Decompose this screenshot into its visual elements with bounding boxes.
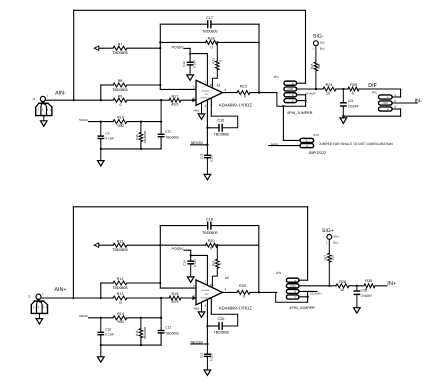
svg-text:R17: R17 — [172, 94, 179, 98]
svg-text:4PIN_JUMPER: 4PIN_JUMPER — [287, 111, 313, 115]
svg-text:TBD0805: TBD0805 — [112, 248, 128, 252]
jumper JP3 pin 1 — [379, 89, 401, 99]
ground below C22 — [354, 308, 361, 313]
node junction C21 — [342, 88, 344, 90]
jumper JP1 pin A — [284, 81, 306, 85]
svg-text:C11: C11 — [165, 130, 171, 134]
net label SIG+ — [322, 228, 334, 234]
capacitor C13 — [182, 60, 196, 75]
connector J2 (SMB jack) — [28, 292, 48, 324]
svg-text:990: 990 — [117, 124, 123, 128]
svg-text:C9: C9 — [105, 131, 109, 135]
svg-text:R13: R13 — [117, 292, 124, 296]
wire A2 output — [223, 92, 277, 94]
wire inverting-node vertical — [160, 24, 196, 89]
net label POS5V bottom — [172, 247, 185, 251]
svg-text:SIG-: SIG- — [320, 42, 326, 45]
net label NEG5V top — [191, 141, 204, 145]
resistor R23 — [237, 84, 250, 98]
capacitor C18 — [202, 217, 218, 235]
node junction C22 — [356, 285, 358, 287]
label ADA4899 A3 — [219, 305, 252, 310]
wire SGND row bottom — [89, 317, 162, 319]
svg-text:100: 100 — [317, 63, 321, 68]
svg-text:SIG+: SIG+ — [333, 235, 340, 238]
svg-text:49.9: 49.9 — [171, 102, 178, 106]
jumper JP2 pin A — [286, 278, 307, 282]
op-amp A3 triangle — [196, 280, 223, 305]
resistor R8 — [112, 79, 128, 92]
svg-text:R20: R20 — [208, 239, 215, 243]
wire JP1-C to P13 pin1 — [283, 139, 300, 141]
node junctions on inverting vertical — [159, 41, 161, 86]
svg-text:0: 0 — [119, 301, 121, 305]
jumper JP1 pin C — [284, 99, 306, 103]
wire SIGAMP- line — [316, 88, 401, 90]
node junction SIG+ — [328, 285, 330, 287]
node junction feedback tap bottom — [258, 291, 260, 293]
svg-text:10: 10 — [340, 288, 344, 292]
wire R7 row — [99, 47, 161, 49]
svg-text:C17: C17 — [206, 16, 213, 20]
capacitor C22 — [354, 286, 372, 308]
resistor R20 — [206, 239, 218, 251]
label PAD A3 — [194, 306, 200, 310]
svg-text:R12: R12 — [117, 277, 124, 281]
ground below C21 — [340, 116, 347, 123]
node junction POS5V bottom — [190, 254, 192, 256]
svg-text:DISABLE: DISABLE — [202, 289, 211, 292]
svg-text:C10: C10 — [105, 328, 111, 332]
svg-text:R11: R11 — [117, 239, 124, 243]
node junctions SGND row bottom — [100, 317, 163, 319]
wire AIN+ main — [42, 297, 196, 299]
wire A3 output — [223, 291, 277, 293]
capacitor C12 — [158, 298, 179, 345]
wire output elbow to JP2 pins B-C — [276, 291, 309, 302]
node junction feedback tap — [258, 91, 260, 93]
svg-text:C13: C13 — [182, 61, 186, 67]
capacitor C20 feedback loop — [206, 314, 237, 334]
jumper P13 pin 1 — [300, 138, 314, 142]
svg-text:BLU: BLU — [320, 48, 325, 51]
node junction R21 top — [216, 41, 218, 43]
node junctions ground rail — [100, 148, 142, 150]
svg-text:SIGAMP+: SIGAMP+ — [310, 293, 322, 296]
svg-text:0.1UF: 0.1UF — [105, 137, 114, 141]
svg-text:J1: J1 — [32, 97, 35, 101]
resistor R26 — [237, 284, 250, 298]
node junction SIG- — [315, 88, 317, 90]
svg-text:AIN+: AIN+ — [54, 287, 66, 293]
jumper JP3 pin 2 — [379, 99, 418, 105]
svg-text:0.1UF: 0.1UF — [210, 154, 214, 162]
svg-text:C12: C12 — [165, 326, 171, 330]
svg-text:TBD0805: TBD0805 — [112, 286, 128, 290]
resistor R14 — [113, 312, 127, 324]
node junction NEG5V — [206, 144, 208, 146]
svg-text:C16: C16 — [199, 352, 203, 358]
resistor R22 — [211, 245, 222, 287]
label JP1 — [274, 75, 280, 79]
label A3 — [225, 276, 229, 280]
testpoint SIG+ circle — [326, 235, 340, 245]
resistor R15 — [135, 122, 147, 149]
svg-text:TBD0805: TBD0805 — [165, 135, 179, 139]
capacitor C15 — [199, 145, 213, 175]
svg-text:R25: R25 — [310, 63, 314, 69]
jumper JP3 pin 3 — [379, 105, 401, 116]
svg-text:TBD0805: TBD0805 — [202, 231, 218, 235]
ground PAD A3 — [198, 302, 205, 317]
svg-text:R24: R24 — [326, 83, 333, 87]
pin number 8 A3 — [210, 283, 212, 287]
net label SGND bottom — [79, 314, 89, 318]
label PAD — [194, 108, 200, 112]
node junctions ground rail bottom — [100, 344, 142, 346]
pin number 2 A3 — [193, 284, 195, 288]
svg-text:FEEDBACK: FEEDBACK — [200, 296, 211, 299]
svg-text:JUMPER FOR SINGLE TO DIFF CONF: JUMPER FOR SINGLE TO DIFF CONFIGURATION — [319, 142, 394, 146]
svg-text:BLU: BLU — [333, 241, 338, 244]
svg-text:C20: C20 — [218, 317, 225, 321]
svg-text:0.1UF: 0.1UF — [193, 259, 197, 267]
wire feedback tap vertical bottom — [258, 226, 260, 293]
svg-text:V-: V- — [202, 100, 204, 103]
svg-text:SIG+: SIG+ — [322, 228, 334, 234]
pin number 2 — [193, 86, 195, 90]
pin number 1 A3 — [211, 299, 213, 303]
svg-text:AIN-: AIN- — [55, 91, 66, 97]
svg-text:R9: R9 — [118, 94, 123, 98]
node junction R22 top — [216, 244, 218, 246]
resistor R21 — [211, 42, 222, 88]
pin 3 input arrow A3 — [192, 296, 196, 300]
svg-text:C14: C14 — [183, 260, 187, 266]
label 4PIN_JUMPER bottom — [289, 306, 315, 310]
jumper JP2 pin C — [286, 295, 307, 299]
svg-text:100: 100 — [331, 255, 335, 260]
resistor R24 — [323, 83, 336, 95]
net arrow R7 row — [94, 46, 99, 50]
net label POS5V top — [172, 46, 185, 50]
pin number 6 A3 — [225, 288, 227, 292]
svg-text:DISABLE: DISABLE — [202, 89, 211, 92]
net label NEG5V bottom — [191, 340, 204, 344]
net arrow R11 row — [94, 243, 99, 247]
net label SIGAMP+ — [310, 293, 322, 296]
wire R18 feedback row — [160, 41, 259, 43]
resistor R27 — [323, 239, 334, 285]
pin number 8 — [210, 83, 212, 87]
svg-text:CON: CON — [288, 88, 294, 91]
svg-text:0: 0 — [243, 294, 245, 298]
wire pin4 negative supply — [206, 100, 208, 144]
node junction C21 ground — [342, 115, 344, 117]
resistor R29 — [348, 83, 359, 95]
svg-text:R8: R8 — [118, 79, 123, 83]
wire ground rail bottom — [101, 344, 161, 346]
node junctions on AIN+ wire — [100, 297, 163, 299]
svg-text:SGND: SGND — [79, 314, 89, 318]
wire JP1 pin C to P13 vertical — [282, 105, 284, 140]
wire C17 feedback row — [160, 23, 259, 25]
svg-text:C21: C21 — [348, 99, 354, 103]
wire POS5V stub — [184, 48, 207, 85]
svg-text:0.1UF: 0.1UF — [192, 60, 196, 68]
resistor R19 — [169, 292, 181, 304]
ground below C14 — [187, 277, 194, 282]
resistor R9 — [113, 94, 127, 107]
node junctions on AIN- wire — [100, 99, 163, 101]
svg-text:C19: C19 — [218, 119, 225, 123]
note single-to-diff — [319, 142, 394, 146]
svg-text:0.1UF: 0.1UF — [210, 353, 214, 361]
resistor R11 — [112, 239, 128, 252]
resistor R18 — [206, 37, 218, 50]
svg-text:ADA4899-1YRDZ: ADA4899-1YRDZ — [219, 305, 252, 310]
svg-text:0: 0 — [352, 91, 354, 95]
wire R11-R20 row — [99, 244, 259, 246]
svg-text:R14: R14 — [117, 312, 124, 316]
svg-text:R29: R29 — [350, 83, 357, 87]
svg-text:POS5V: POS5V — [172, 247, 185, 251]
svg-text:FEEDBACK: FEEDBACK — [200, 97, 211, 100]
svg-text:DIF: DIF — [368, 83, 377, 89]
svg-text:P13: P13 — [313, 133, 319, 137]
svg-text:R22: R22 — [211, 260, 215, 266]
svg-text:0: 0 — [244, 95, 246, 99]
label JP2 — [276, 271, 282, 275]
svg-text:R30: R30 — [365, 279, 372, 283]
net label SIG- — [313, 34, 324, 40]
svg-text:R16: R16 — [135, 330, 139, 336]
wire ground rail — [101, 148, 161, 150]
jumper JP1 pin CON — [284, 87, 316, 91]
svg-text:C: C — [294, 296, 296, 299]
capacitor C10 — [98, 318, 114, 345]
svg-text:0: 0 — [210, 45, 212, 49]
net label SIGAMP- — [305, 92, 316, 95]
wire POS5V stub bottom — [184, 250, 207, 285]
label ADA4899 A2 — [219, 103, 252, 108]
net label AIN- — [55, 91, 66, 97]
svg-text:TBD0805: TBD0805 — [165, 332, 179, 336]
capacitor C16 — [199, 344, 213, 370]
op-amp A3 internal labels — [200, 285, 211, 303]
wire C18 feedback row — [160, 225, 258, 227]
svg-text:J2: J2 — [28, 295, 31, 299]
svg-text:A3: A3 — [225, 276, 229, 280]
resistor R12 — [112, 277, 128, 290]
op-amp A2 triangle — [196, 80, 223, 105]
label P13 — [313, 133, 319, 137]
wire inverting-node vertical bottom — [160, 226, 196, 289]
svg-text:TBD0805: TBD0805 — [143, 130, 147, 143]
wire SIGAMP+ line — [330, 285, 387, 287]
pin 3 input arrow A2 — [192, 98, 196, 102]
svg-text:0: 0 — [210, 246, 212, 250]
pin number 3 A3 — [193, 294, 195, 298]
svg-text:R23: R23 — [240, 84, 247, 88]
wire pin1 feedback A3 — [210, 298, 212, 315]
ground below C9 — [98, 149, 105, 166]
svg-text:TBD0805: TBD0805 — [214, 331, 230, 335]
pin number 4 — [205, 104, 207, 108]
svg-text:R19: R19 — [172, 292, 179, 296]
ground below C15 — [204, 174, 211, 179]
ground below C13 — [187, 75, 194, 80]
resistor R17 — [169, 94, 181, 106]
wire output elbow to JP1 pins B-C — [277, 93, 307, 107]
pin number 6 — [225, 88, 227, 92]
svg-text:R15: R15 — [135, 134, 139, 140]
wire R12 row — [101, 283, 161, 298]
svg-text:R7: R7 — [118, 42, 123, 46]
svg-text:2700PF: 2700PF — [361, 294, 372, 298]
pin number 7 — [204, 80, 206, 84]
svg-text:POS5V: POS5V — [172, 46, 185, 50]
svg-text:R28: R28 — [339, 280, 346, 284]
jumper JP2 pin B — [286, 289, 317, 293]
svg-text:CON: CON — [382, 102, 388, 105]
label A2 — [217, 84, 221, 88]
svg-text:0: 0 — [119, 103, 121, 107]
node junctions on inverting vertical bottom — [159, 244, 161, 284]
wire feedback tap vertical — [258, 24, 260, 92]
capacitor C14 — [183, 259, 197, 277]
jumper JP2 pin CON — [286, 284, 329, 288]
wire pin4 negative supply A3 — [206, 300, 208, 345]
resistor R7 — [112, 42, 128, 55]
pin number 1 — [211, 102, 213, 106]
svg-text:IN+: IN+ — [387, 281, 396, 287]
pin number 4 A3 — [205, 304, 207, 308]
wire AIN- main — [46, 99, 196, 101]
op-amp A2 internal labels — [200, 86, 211, 104]
svg-text:CON: CON — [290, 285, 296, 288]
svg-text:JP3: JP3 — [372, 91, 377, 95]
wire SGND row — [89, 121, 162, 123]
node junction NEG5V bottom — [206, 343, 208, 345]
testpoint SIG- circle — [312, 41, 325, 51]
svg-text:SGND: SGND — [79, 118, 89, 122]
svg-text:C: C — [292, 100, 294, 103]
svg-text:IN-: IN- — [415, 98, 423, 104]
resistor R13 — [113, 292, 127, 305]
svg-text:C15: C15 — [199, 153, 203, 159]
node junction POS5V — [189, 52, 191, 54]
svg-text:PAD: PAD — [194, 108, 200, 112]
svg-text:R10: R10 — [117, 116, 124, 120]
svg-text:TBD0805: TBD0805 — [112, 88, 128, 92]
svg-text:0: 0 — [365, 287, 367, 291]
ground PAD A2 — [198, 103, 205, 119]
svg-text:2700PF: 2700PF — [348, 104, 359, 108]
svg-text:A2: A2 — [217, 84, 221, 88]
svg-text:49.9: 49.9 — [171, 300, 178, 304]
svg-text:JMP1SO2: JMP1SO2 — [309, 151, 326, 155]
jumper P13 pin 2 — [300, 144, 314, 148]
resistor R30 — [364, 279, 375, 291]
wire top feedback rail — [74, 10, 306, 100]
capacitor C11 — [158, 100, 179, 149]
pin number 3 — [193, 96, 195, 100]
wire R8 row — [101, 85, 161, 100]
ground below C10 — [98, 345, 105, 362]
svg-text:4PIN_JUMPER: 4PIN_JUMPER — [289, 306, 315, 310]
svg-text:R27: R27 — [323, 255, 327, 261]
net label DIF — [368, 83, 377, 89]
capacitor C17 — [202, 16, 218, 34]
resistor R28 — [336, 280, 349, 292]
svg-text:JP2: JP2 — [276, 271, 282, 275]
resistor R10 — [113, 116, 127, 128]
wire AGND to P13 pin2 — [269, 145, 300, 147]
svg-text:R18: R18 — [208, 37, 215, 41]
wire NEG5V stub — [191, 144, 208, 146]
svg-text:TBD0805: TBD0805 — [214, 132, 230, 136]
svg-text:R21: R21 — [211, 58, 215, 64]
net label IN- — [415, 98, 423, 104]
svg-text:ADA4899-1YRDZ: ADA4899-1YRDZ — [219, 103, 252, 108]
jumper JP1 pin B — [284, 93, 306, 97]
wire bottom feedback rail — [73, 207, 307, 298]
label 4PIN_JUMPER top — [287, 111, 313, 115]
svg-text:0.1UF: 0.1UF — [105, 333, 114, 337]
pin number 7 A3 — [204, 280, 206, 284]
resistor R25 — [310, 46, 321, 89]
net label SGND top — [79, 118, 89, 122]
capacitor C19 feedback loop — [206, 116, 237, 136]
connector J1 (SMB jack) — [32, 95, 52, 127]
net label IN+ — [387, 281, 396, 287]
node junctions SGND row — [100, 120, 163, 122]
svg-text:C18: C18 — [206, 217, 213, 221]
svg-text:V-: V- — [202, 300, 204, 303]
wire JP3 pin3 return — [343, 115, 400, 117]
svg-text:990: 990 — [117, 320, 123, 324]
svg-text:PAD: PAD — [194, 306, 200, 310]
label JP3 — [372, 91, 377, 95]
svg-text:TBD0805: TBD0805 — [202, 30, 218, 34]
capacitor C21 — [341, 89, 359, 116]
label JMP1SO2 — [309, 151, 326, 155]
net label AGND — [271, 143, 279, 146]
svg-text:TBD0805: TBD0805 — [112, 51, 128, 55]
svg-text:SIG-: SIG- — [313, 34, 324, 40]
net label AIN+ — [54, 287, 66, 293]
svg-text:TBD0805: TBD0805 — [143, 327, 147, 340]
wire NEG5V stub bottom — [191, 343, 208, 345]
svg-text:JP1: JP1 — [274, 75, 280, 79]
node junction feedback-left on AIN+ wire — [72, 297, 74, 299]
svg-text:R26: R26 — [239, 284, 246, 288]
svg-text:10: 10 — [326, 91, 330, 95]
node junction feedback-left on AIN- wire — [73, 99, 75, 101]
svg-text:SIGAMP-: SIGAMP- — [305, 92, 316, 95]
capacitor C9 — [98, 122, 114, 149]
wire pin1 feedback — [210, 98, 212, 116]
resistor R16 — [135, 318, 147, 345]
ground below C16 — [204, 370, 211, 375]
